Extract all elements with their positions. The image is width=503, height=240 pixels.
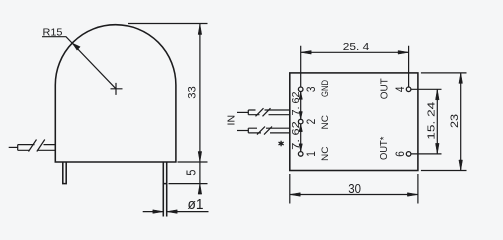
dim 25.4: extension lines down to pins <box>301 46 409 87</box>
IN lead upper with break <box>237 108 290 116</box>
arrowheads <box>72 24 462 213</box>
dim 7.62 chain arrows <box>299 92 302 100</box>
dim 25.4: dimension line <box>301 51 409 53</box>
dim 33/5: vertical dimension line <box>199 24 201 190</box>
dim 30 arrows <box>290 193 301 197</box>
svg-text:7. 62: 7. 62 <box>291 92 302 116</box>
svg-text:NC: NC <box>320 115 330 130</box>
pin 2 <box>298 119 303 124</box>
dim 5: extension line at pin bottom <box>169 183 208 185</box>
svg-text:R15: R15 <box>43 26 63 38</box>
dim 15.24: extension lines from pins 4,6 <box>409 89 442 154</box>
asterisk marker near pin 1 lead <box>279 141 284 147</box>
svg-text:OUT: OUT <box>380 78 391 99</box>
IN lead lower with break <box>237 127 290 135</box>
svg-text:33: 33 <box>187 86 199 99</box>
svg-text:IN: IN <box>226 115 237 126</box>
svg-text:30: 30 <box>348 181 361 196</box>
pin 4 <box>406 87 411 92</box>
R15 arrow on arc <box>72 43 80 50</box>
dim 25.4 arrows <box>301 51 312 55</box>
svg-text:OUT*: OUT* <box>379 136 390 160</box>
svg-text:25. 4: 25. 4 <box>343 42 370 53</box>
left view: right pin + extension lines for dia dim <box>163 162 166 217</box>
svg-text:23: 23 <box>449 114 461 128</box>
left view: component body outline <box>55 25 176 162</box>
svg-text:15. 24: 15. 24 <box>427 101 438 139</box>
dia 1 dimension line <box>143 211 209 213</box>
svg-text:GND: GND <box>320 80 330 97</box>
dim 15.24: dimension line <box>436 89 438 154</box>
dim 23 arrows <box>459 73 463 84</box>
dim 30: dimension line <box>290 194 418 196</box>
right view: package rectangle <box>290 73 418 171</box>
pin 6 <box>406 152 411 157</box>
pin circles (bg-filled, drawn over lines) <box>298 87 411 156</box>
dim 15.24 arrows <box>436 89 440 100</box>
R15 leader line <box>42 37 116 89</box>
dia1 arrows (outside, pointing inward) <box>153 210 164 214</box>
svg-text:1: 1 <box>304 151 318 157</box>
dim 23: dimension line <box>460 73 462 171</box>
dim 23: extension lines <box>421 73 467 171</box>
left view: axial lead wire with break symbol <box>9 140 56 152</box>
svg-text:3: 3 <box>304 86 318 92</box>
dim 5 bottom arrow (outside, pointing up) <box>198 184 202 195</box>
svg-text:ø1: ø1 <box>188 197 204 213</box>
dim 33/5: extension line at body bottom <box>178 161 208 163</box>
dim 7.62 chain line through left pins <box>300 89 302 154</box>
svg-text:6: 6 <box>393 151 407 157</box>
svg-text:NC: NC <box>320 146 330 161</box>
pin 3 <box>298 87 303 92</box>
dim 33: top extension line from arc apex <box>128 23 208 25</box>
svg-text:4: 4 <box>393 86 407 92</box>
dim 30: extension lines <box>290 174 418 204</box>
left view: center mark + <box>111 83 123 95</box>
svg-text:2: 2 <box>304 119 318 125</box>
svg-text:7. 62: 7. 62 <box>291 121 302 150</box>
svg-text:5: 5 <box>185 170 199 176</box>
left view: left pin <box>63 162 66 184</box>
dim 33 arrows <box>198 24 202 35</box>
pin 1 <box>298 152 303 157</box>
